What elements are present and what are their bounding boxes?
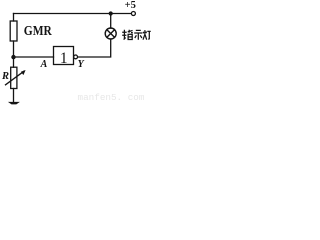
svg-text:Y: Y — [78, 59, 85, 70]
svg-text:+5: +5 — [125, 0, 136, 11]
svg-text:A: A — [40, 59, 48, 70]
svg-text:manfen5. com: manfen5. com — [78, 92, 145, 103]
svg-text:GMR: GMR — [24, 24, 53, 39]
svg-text:1: 1 — [60, 50, 68, 67]
svg-text:R: R — [1, 71, 9, 82]
